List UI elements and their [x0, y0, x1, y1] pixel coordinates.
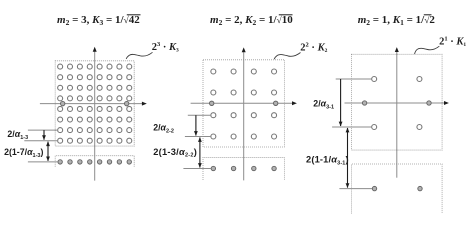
panel 3 distance indicator lines [336, 78, 372, 80]
panel 1 x-axis [40, 103, 142, 105]
panel 1 unit marker dots on x-axis [61, 101, 65, 105]
panel 1 shifted bottom row (gray) [58, 160, 62, 164]
svg-text:2/α3-1: 2/α3-1 [313, 99, 334, 111]
panel 2 unit marker dots on x-axis [210, 101, 214, 105]
panel 3 unit marker dots on x-axis [362, 101, 366, 105]
panel 3 pointer squiggle [415, 46, 440, 54]
svg-text:m2 = 1, K1 = 1/√2: m2 = 1, K1 = 1/√2 [358, 14, 436, 27]
panel 3 arrow 2/alpha [340, 79, 342, 126]
panel 1 distance indicator lines [28, 129, 58, 131]
panel 3 y-axis [396, 52, 398, 178]
panel 2 main dashed box [203, 60, 284, 147]
panel 2 arrow 2/alpha [195, 115, 197, 135]
svg-text:m2 = 2, K2 = 1/√10: m2 = 2, K2 = 1/√10 [210, 14, 293, 27]
svg-text:2(1-1/α3-1): 2(1-1/α3-1) [306, 154, 349, 166]
svg-text:2(1-7/α1-3): 2(1-7/α1-3) [4, 147, 43, 159]
svg-text:21 · K1: 21 · K1 [439, 36, 466, 48]
panel 3 shifted bottom row (gray) [372, 186, 376, 190]
panel 2 distance indicator lines [188, 114, 211, 116]
panel 3 4-QAM white points [372, 77, 377, 82]
panel 2 y-axis [243, 52, 245, 180]
panel 2 16-QAM white points [211, 69, 216, 74]
svg-text:m2 = 3, K3 = 1/√42: m2 = 3, K3 = 1/√42 [57, 14, 140, 27]
panel 2 pointer squiggle [274, 53, 300, 60]
panel 2 lower dashed box [203, 157, 284, 180]
panel 1 y-axis [94, 52, 96, 181]
svg-text:22 · K2: 22 · K2 [300, 41, 327, 53]
svg-text:23 · K3: 23 · K3 [152, 41, 179, 53]
panel 3 double arrow 2(1-1/alpha) [347, 128, 349, 188]
panel 1 lower dashed box [55, 156, 134, 167]
svg-text:2/α2-2: 2/α2-2 [153, 123, 174, 135]
panel 2 double arrow 2(1-3/alpha) [199, 138, 201, 168]
panel 1 pointer squiggle [126, 52, 152, 59]
panel 1 double arrow 2(1-7/alpha) [47, 142, 49, 161]
svg-text:2(1-3/α2-2): 2(1-3/α2-2) [153, 147, 197, 159]
panel 1 main dashed box [55, 61, 134, 146]
svg-text:2/α1-3: 2/α1-3 [7, 129, 28, 141]
panel 2 shifted bottom row (gray) [211, 166, 215, 170]
panel 3 lower dashed box [352, 164, 443, 214]
panel 1 arrow 2/alpha [43, 130, 45, 140]
panel 3 x-axis [345, 102, 445, 104]
panel 3 main dashed box [352, 54, 443, 150]
panel 1 64-QAM white points [58, 64, 63, 69]
panel 2 x-axis [191, 102, 293, 104]
